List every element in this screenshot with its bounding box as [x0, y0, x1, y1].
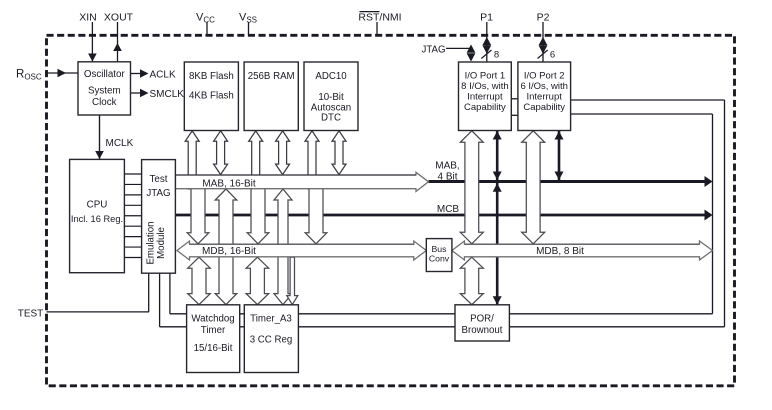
svg-text:Watchdog: Watchdog	[191, 313, 234, 324]
wire P1 stub	[486, 22, 488, 62]
io port2 box	[518, 62, 571, 131]
wire XOUT stub	[117, 22, 119, 62]
port2 to MDB8 open arrow	[522, 131, 545, 244]
MDB16 band top edge	[190, 243, 414, 245]
ROSC arrowhead	[58, 69, 67, 78]
svg-text:8 I/Os, with: 8 I/Os, with	[461, 81, 509, 92]
bus converter box	[426, 239, 452, 272]
wire port2 right upper net	[571, 99, 725, 101]
svg-text:Test: Test	[150, 174, 168, 185]
svg-text:ADC10: ADC10	[315, 71, 347, 82]
SMCLK arrowhead	[140, 89, 149, 98]
svg-text:Timer_A3: Timer_A3	[250, 313, 292, 324]
RAM to MDB arrow upper shaft	[249, 131, 263, 189]
svg-text:DTC: DTC	[321, 112, 341, 123]
io port1 box	[459, 62, 512, 131]
RAM to MAB arrow	[276, 131, 290, 175]
svg-text:MAB, 16-Bit: MAB, 16-Bit	[202, 178, 256, 189]
POR box	[455, 305, 509, 341]
wire port2 right lower net	[571, 113, 713, 115]
svg-text:ACLK: ACLK	[150, 69, 176, 80]
port1 MAB black arrow upper	[496, 131, 499, 181]
bus MAB 4-bit arrowhead	[705, 176, 713, 187]
svg-text:4KB Flash: 4KB Flash	[189, 91, 234, 102]
port1 MAB-to-POR black arrow	[496, 183, 499, 305]
svg-text:XIN: XIN	[79, 12, 97, 24]
ADC to MDB arrow lower	[305, 185, 327, 244]
MDB8 to POR open arrow	[460, 257, 483, 304]
MAB band top edge	[175, 174, 416, 176]
wire port1-port2 link lower	[511, 114, 518, 116]
svg-text:Oscillator: Oscillator	[84, 69, 126, 80]
svg-text:Conv: Conv	[429, 254, 450, 264]
svg-text:Capability: Capability	[523, 102, 565, 113]
wire MCLK	[99, 115, 101, 159]
RST overline	[360, 11, 380, 13]
P2 slash 6	[538, 50, 548, 59]
CPU to emulation ladder wires	[124, 173, 141, 175]
svg-text:POR/: POR/	[470, 314, 494, 325]
port1 to MDB8 open arrow	[460, 131, 483, 244]
wire XIN stub	[91, 22, 93, 62]
flash box	[184, 62, 238, 131]
P1 double arrow	[482, 37, 491, 45]
svg-text:JTAG: JTAG	[146, 188, 170, 199]
svg-text:CPU: CPU	[87, 200, 108, 211]
svg-text:P1: P1	[480, 12, 493, 24]
ADC box	[304, 62, 358, 131]
svg-text:8: 8	[494, 50, 499, 61]
svg-text:15/16-Bit: 15/16-Bit	[194, 343, 233, 354]
wire VCC stub	[206, 22, 208, 35]
svg-text:6: 6	[550, 50, 555, 61]
watchdog to MDB arrow	[188, 257, 211, 304]
svg-text:Module: Module	[156, 227, 167, 259]
CPU box	[70, 159, 125, 272]
svg-text:Timer: Timer	[201, 325, 226, 336]
bus MDB 16-bit band	[177, 241, 426, 260]
svg-text:System: System	[88, 86, 121, 97]
wire ACLK	[131, 73, 146, 75]
MDB8 band top edge	[464, 243, 699, 245]
bus MCB arrowhead	[705, 210, 713, 221]
watchdog to MAB arrow	[215, 189, 237, 305]
ACLK arrowhead	[140, 69, 149, 78]
P1 slash 8	[481, 50, 491, 59]
svg-text:4 Bit: 4 Bit	[437, 172, 457, 183]
svg-text:Brownout: Brownout	[462, 325, 503, 336]
svg-text:256B RAM: 256B RAM	[248, 71, 295, 82]
emulation box	[142, 160, 176, 274]
timer to MDB small arrow	[287, 257, 298, 304]
svg-text:SMCLK: SMCLK	[150, 89, 185, 100]
svg-text:Bus: Bus	[432, 244, 448, 254]
ADC to MAB arrow	[332, 131, 346, 175]
svg-text:Capability: Capability	[464, 102, 506, 113]
watchdog box	[187, 305, 240, 373]
svg-text:MDB, 8 Bit: MDB, 8 Bit	[536, 246, 584, 257]
wire VSS stub	[248, 22, 250, 35]
wire RST/NMI stub	[376, 22, 378, 35]
RAM box	[244, 62, 298, 131]
svg-text:TEST: TEST	[18, 308, 44, 319]
bus MAB 16-bit band	[175, 172, 428, 191]
svg-text:MDB, 16-Bit: MDB, 16-Bit	[202, 246, 256, 257]
P2 double arrow	[539, 37, 548, 45]
wire ROSC to oscillator	[47, 72, 79, 74]
wire JTAG to port1	[446, 47, 471, 49]
JTAG double arrow	[467, 45, 476, 53]
svg-text:XOUT: XOUT	[104, 12, 134, 24]
flash to MDB arrow upper shaft	[185, 131, 199, 189]
wire SMCLK	[131, 92, 146, 94]
flash to MAB arrow	[214, 131, 228, 175]
MCLK arrowhead	[95, 151, 104, 159]
XOUT arrowhead	[113, 43, 122, 51]
svg-text:Incl. 16 Reg.: Incl. 16 Reg.	[71, 214, 123, 224]
svg-text:Clock: Clock	[92, 97, 117, 108]
oscillator box	[78, 62, 131, 115]
timer box	[244, 305, 298, 373]
svg-text:JTAG: JTAG	[421, 44, 445, 55]
svg-text:RST/NMI: RST/NMI	[358, 12, 401, 24]
ADC to MDB arrow upper shaft	[305, 131, 319, 189]
wire P2 stub	[542, 22, 544, 62]
timer to MDB arrow	[246, 257, 269, 304]
wire emulation to watchdog lower net	[159, 273, 161, 327]
svg-text:MCLK: MCLK	[106, 138, 134, 149]
dashed device boundary	[47, 35, 735, 386]
wire port1-port2 link upper	[511, 98, 518, 100]
port2 MAB black arrow	[558, 131, 561, 181]
bus MDB 8-bit band	[452, 241, 713, 260]
svg-text:10-Bit: 10-Bit	[318, 92, 344, 103]
flash to MDB arrow lower	[187, 185, 209, 244]
svg-text:P2: P2	[537, 12, 550, 24]
svg-text:3 CC Reg: 3 CC Reg	[250, 335, 293, 346]
wire emulation to watchdog upper net	[169, 273, 171, 314]
svg-text:8KB Flash: 8KB Flash	[189, 71, 234, 82]
XIN arrowhead	[88, 54, 97, 62]
bus MCB line	[175, 214, 708, 217]
svg-text:MAB,: MAB,	[435, 160, 459, 171]
bus MAB 4-bit line	[429, 180, 709, 183]
svg-text:6 I/Os, with: 6 I/Os, with	[520, 81, 568, 92]
timer to MAB arrow	[274, 189, 292, 305]
wire TEST net	[47, 311, 150, 313]
RAM to MDB arrow lower	[247, 185, 269, 244]
svg-text:MCB: MCB	[437, 204, 460, 215]
svg-text:Emulation: Emulation	[146, 221, 157, 264]
